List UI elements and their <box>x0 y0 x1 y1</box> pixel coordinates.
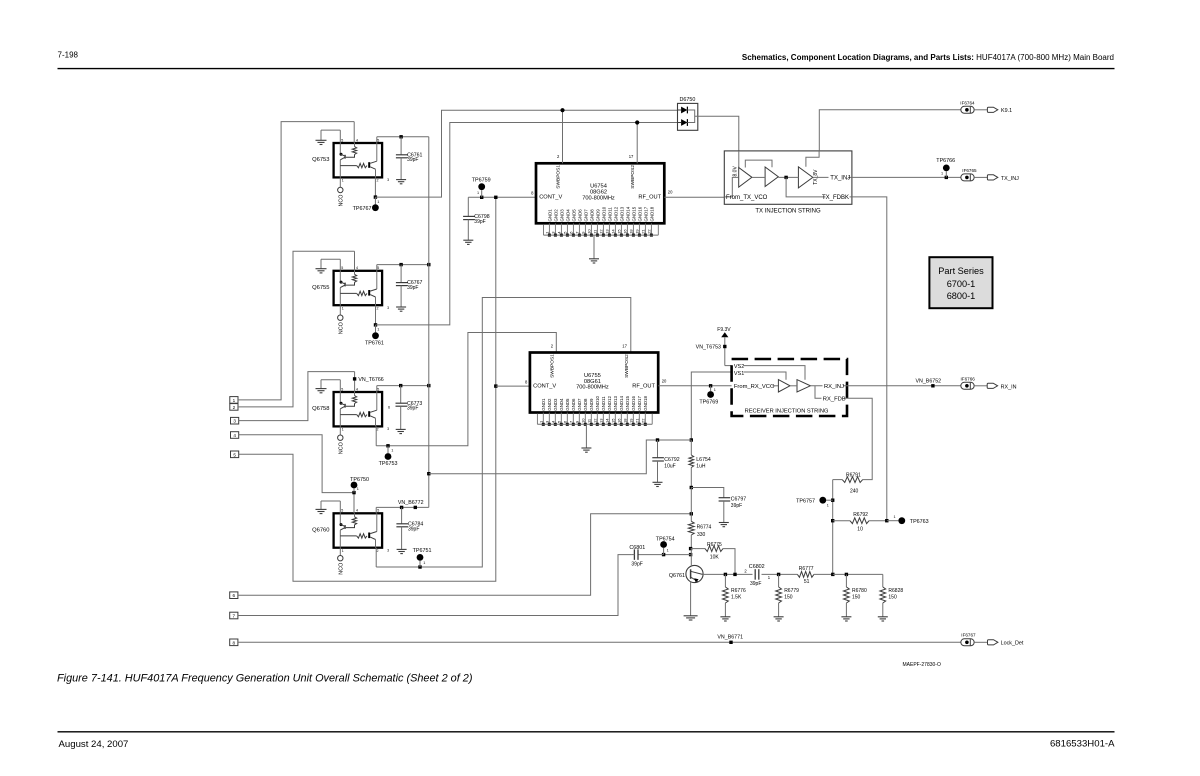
Q6760 internals: collector resistor from pin 4 <box>354 513 356 517</box>
svg-text:VS1: VS1 <box>734 371 744 377</box>
svg-text:2: 2 <box>377 549 379 553</box>
svg-text:39pF: 39pF <box>407 406 418 412</box>
net marker VN_B6772 <box>414 506 417 509</box>
svg-text:1: 1 <box>342 549 344 553</box>
svg-text:5: 5 <box>233 452 236 457</box>
svg-text:NCO: NCO <box>338 322 344 334</box>
svg-text:1: 1 <box>768 575 771 580</box>
connector 1 <box>230 397 238 404</box>
ground below C6773 <box>396 428 406 430</box>
junction C6801 tap <box>689 553 692 556</box>
svg-text:GND4: GND4 <box>565 209 570 222</box>
junction bus / pin5 net <box>427 263 430 266</box>
header rule <box>58 68 1115 70</box>
svg-text:16: 16 <box>616 418 621 423</box>
Q6758 pin 1 NCO circle <box>339 426 341 435</box>
svg-text:1: 1 <box>377 200 379 204</box>
Q6758 ground (top-left) <box>321 379 340 381</box>
svg-text:8: 8 <box>531 191 534 196</box>
wire: amp2 to amp3 with feedback tap <box>778 176 798 178</box>
svg-text:IF6764: IF6764 <box>960 100 975 105</box>
svg-text:4: 4 <box>356 509 358 513</box>
svg-text:150: 150 <box>784 595 793 601</box>
svg-text:39pF: 39pF <box>474 219 485 225</box>
Q6755 internals: collector resistor from pin 4 <box>354 271 356 275</box>
svg-text:VN_B6771: VN_B6771 <box>717 635 743 641</box>
svg-text:GND13: GND13 <box>619 206 624 221</box>
TX_8V supply to amp3 <box>806 151 819 167</box>
capacitor C6784 <box>401 507 403 523</box>
Q6753 ground (top-left) <box>321 129 340 131</box>
svg-text:RF_OUT: RF_OUT <box>638 194 661 200</box>
junction TP6759 <box>480 196 483 199</box>
wire: Q6755 pin 2 to D6750 lower diode <box>375 305 377 325</box>
ground below C6798 <box>463 239 473 241</box>
svg-text:6800-1: 6800-1 <box>947 291 976 301</box>
wire: C6801 to collector node <box>664 554 691 556</box>
Q6753 pin 1 NCO pin circle <box>339 177 341 187</box>
junction TP6766 <box>945 176 948 179</box>
wire: D6750 output to TX injection string 8.0V <box>695 116 739 151</box>
svg-text:1uH: 1uH <box>696 463 706 469</box>
svg-text:3: 3 <box>544 420 549 423</box>
wire: Q6758 pin 5 output to bus <box>376 386 378 392</box>
wire: Q6753 pin 5 output to bus <box>376 137 378 143</box>
svg-text:TX_8V: TX_8V <box>813 169 819 185</box>
svg-text:NCO: NCO <box>338 563 344 575</box>
wire: feedback tap down to TX_FDBK <box>786 177 852 197</box>
wire: VN_T6753 to VS2 <box>725 365 732 367</box>
amplifier 2 <box>765 167 778 187</box>
amplifier 3 <box>798 167 812 188</box>
diode D6750-2 <box>681 119 687 126</box>
svg-text:GND15: GND15 <box>625 396 630 411</box>
connector 2 <box>230 404 238 411</box>
junction TP6750 corner <box>352 491 355 494</box>
svg-text:6700-1: 6700-1 <box>947 279 976 289</box>
svg-text:21: 21 <box>640 229 645 234</box>
svg-text:2: 2 <box>377 306 379 310</box>
svg-text:GND14: GND14 <box>625 206 630 221</box>
connector 7 <box>230 612 238 619</box>
svg-text:6: 6 <box>568 231 573 234</box>
U6754 ground symbol <box>593 235 595 259</box>
svg-text:GND8: GND8 <box>589 209 594 222</box>
svg-text:1: 1 <box>667 549 669 553</box>
svg-text:GND8: GND8 <box>583 398 588 411</box>
svg-text:13: 13 <box>598 418 603 423</box>
resistor R6776 <box>724 574 726 587</box>
connector IF6766 <box>961 382 974 389</box>
net marker VN_T6753 <box>723 345 726 348</box>
svg-text:NCO: NCO <box>338 195 344 207</box>
svg-text:RF_OUT: RF_OUT <box>632 384 655 390</box>
transistor Q6761 <box>686 565 703 582</box>
wire: connector 8 Lock_Det net VN_B6771 <box>238 641 961 643</box>
svg-text:TX_INJ: TX_INJ <box>830 175 850 181</box>
Q6753 internals: input transistor <box>339 143 341 154</box>
svg-text:GND3: GND3 <box>559 209 564 222</box>
junction at Q6755 pin 2 / TP6761 <box>374 323 377 326</box>
junction TX_FDBK / R6792 / TP6763 <box>885 519 888 522</box>
svg-text:GND17: GND17 <box>637 396 642 411</box>
svg-text:17: 17 <box>622 343 627 348</box>
capacitor C6767 <box>400 265 402 283</box>
svg-text:GND11: GND11 <box>607 207 612 222</box>
svg-text:4: 4 <box>556 231 561 234</box>
Q6755 ground (top-left) <box>321 258 340 260</box>
svg-text:4: 4 <box>356 266 358 270</box>
svg-text:TP6759: TP6759 <box>472 178 491 184</box>
svg-text:GND18: GND18 <box>649 206 654 221</box>
svg-text:GND6: GND6 <box>571 398 576 411</box>
rx amplifier 1 <box>778 380 790 392</box>
svg-text:IF6765: IF6765 <box>962 168 977 173</box>
wire: connector 6 to bias node <box>238 514 691 595</box>
svg-text:20: 20 <box>662 379 667 384</box>
capacitor C6792 <box>657 440 659 458</box>
svg-text:5: 5 <box>377 387 379 391</box>
svg-text:TX_INJ: TX_INJ <box>1001 176 1019 182</box>
svg-text:VS2: VS2 <box>734 364 744 370</box>
svg-text:GND7: GND7 <box>583 209 588 222</box>
svg-text:R6777: R6777 <box>799 566 814 572</box>
svg-text:21: 21 <box>634 418 639 423</box>
svg-text:VN_B6772: VN_B6772 <box>398 500 424 506</box>
junction on D6750 lower net <box>635 120 639 124</box>
svg-text:39pF: 39pF <box>631 561 642 567</box>
off-page arrow Lock_Det <box>988 640 998 645</box>
wire: bias node to VS1 <box>691 372 731 440</box>
svg-text:R6779: R6779 <box>784 588 799 594</box>
svg-text:1: 1 <box>233 398 236 403</box>
svg-text:5: 5 <box>341 509 343 513</box>
diode D6750-1 <box>681 107 687 114</box>
connector 8 <box>230 639 238 646</box>
wire: CONT_V to U6754 pin 8 <box>468 196 536 198</box>
ground below C6784 <box>397 548 407 550</box>
wire: R6791 down to R6792 <box>832 480 834 575</box>
svg-text:Lock_Det: Lock_Det <box>1001 641 1024 647</box>
svg-text:GND2: GND2 <box>553 209 558 222</box>
wire: Q6753 pin 4 feed from top loop <box>353 122 355 143</box>
test point TP6751 <box>419 561 421 567</box>
svg-text:R6780: R6780 <box>852 588 867 594</box>
svg-text:1: 1 <box>714 388 716 392</box>
svg-text:5: 5 <box>341 387 343 391</box>
wire: Q6758 pin 4 feed <box>354 372 356 392</box>
svg-text:22: 22 <box>646 229 651 234</box>
junction C6792 <box>656 438 659 441</box>
capacitor C6797 <box>719 497 731 499</box>
svg-text:5: 5 <box>377 138 379 142</box>
svg-text:2: 2 <box>377 179 379 183</box>
rx amplifier 2 <box>797 380 810 392</box>
svg-text:C6802: C6802 <box>749 564 765 570</box>
svg-text:D6750: D6750 <box>680 97 696 103</box>
svg-text:Schematics, Component Location: Schematics, Component Location Diagrams,… <box>742 53 1114 62</box>
wire: amp3 output TX_INJ <box>813 176 852 178</box>
svg-text:IF6767: IF6767 <box>961 633 976 638</box>
svg-text:TP6769: TP6769 <box>699 400 718 406</box>
svg-text:F9.3V: F9.3V <box>717 327 731 333</box>
svg-text:SWBPOS1: SWBPOS1 <box>556 165 562 189</box>
svg-text:39pF: 39pF <box>408 526 419 532</box>
transistor array Q6755 module box <box>334 271 383 305</box>
svg-text:Q6753: Q6753 <box>312 157 329 163</box>
svg-text:2: 2 <box>744 569 747 574</box>
ground below C6797 <box>719 522 729 524</box>
connector 4 <box>231 432 239 439</box>
svg-text:2: 2 <box>557 154 560 159</box>
svg-text:K9.1: K9.1 <box>1001 108 1012 114</box>
diode pack D6750 <box>678 103 698 130</box>
footer rule <box>58 731 1115 733</box>
svg-text:4: 4 <box>356 138 358 142</box>
transistor array Q6753 module box <box>334 143 383 177</box>
Q6755 pin 1 NCO circle <box>339 305 341 315</box>
svg-text:39pF: 39pF <box>731 503 742 509</box>
junction L6754 bottom / C6797 <box>690 486 693 489</box>
svg-text:GND3: GND3 <box>553 398 558 411</box>
junction at C6767 top <box>399 263 402 266</box>
svg-text:GND12: GND12 <box>613 206 618 221</box>
svg-text:RX_FDB: RX_FDB <box>823 397 846 403</box>
Q6760 internals: input transistor <box>339 513 341 524</box>
svg-text:CONT_V: CONT_V <box>539 194 562 200</box>
junction: bus to bias feed <box>427 472 430 475</box>
wire: rx amp2 output RX_INJ <box>810 385 847 387</box>
wire: From_TX_VCO input <box>724 177 738 197</box>
capacitor C6798 <box>467 197 469 216</box>
Q6761 emitter ground <box>690 582 692 616</box>
wire: U6754 pin 2 from D6750 net <box>562 110 564 163</box>
D6750 internal output join <box>687 110 694 123</box>
svg-text:13: 13 <box>604 229 609 234</box>
svg-text:GND15: GND15 <box>631 206 636 221</box>
wire: U6754 pin 17 from D6750 net <box>636 123 638 164</box>
svg-text:10K: 10K <box>710 554 720 560</box>
svg-text:15: 15 <box>616 229 621 234</box>
svg-text:5: 5 <box>556 420 561 423</box>
junction CONT_V bus drop <box>494 196 497 199</box>
svg-text:6: 6 <box>388 406 390 410</box>
svg-text:GND9: GND9 <box>589 398 594 411</box>
junction R6774 top / connector 6 feed <box>690 512 693 515</box>
Q6755 internals: input transistor <box>339 271 341 282</box>
svg-text:1: 1 <box>538 420 543 423</box>
svg-text:7-198: 7-198 <box>58 51 79 60</box>
wire: Q6758 pin 2 to U6755 SWBPOS1 <box>375 426 377 445</box>
test point TP6759 <box>481 190 483 197</box>
capacitor C6801 horizontal <box>638 554 664 556</box>
svg-text:11: 11 <box>586 418 591 423</box>
wire: Q6760 pin 4 feed <box>353 493 355 514</box>
svg-text:RX_INJ: RX_INJ <box>824 384 844 390</box>
Q6760 pin 1 NCO circle <box>339 548 341 556</box>
oscillator IC U6755 box <box>530 353 658 413</box>
svg-text:1: 1 <box>342 306 344 310</box>
svg-text:1: 1 <box>377 328 379 332</box>
svg-text:19: 19 <box>628 418 633 423</box>
Q6758 internals: base resistor and output transistor <box>340 414 356 416</box>
svg-text:9: 9 <box>580 231 585 234</box>
svg-text:8: 8 <box>525 380 528 385</box>
svg-text:6: 6 <box>233 593 236 598</box>
svg-text:8.0V: 8.0V <box>733 166 739 177</box>
svg-text:TP6750: TP6750 <box>350 477 369 483</box>
svg-text:C6797: C6797 <box>731 497 746 503</box>
wire: connector 4 to Q6760 pin 4 <box>239 435 354 493</box>
svg-text:GND16: GND16 <box>637 206 642 221</box>
junction R6775 drop <box>733 573 736 576</box>
svg-text:3: 3 <box>387 306 389 310</box>
svg-text:VN_B6752: VN_B6752 <box>916 378 942 384</box>
svg-text:From_TX_VCO: From_TX_VCO <box>726 195 768 201</box>
connector 5 <box>231 451 239 458</box>
resistor R6775 <box>691 548 705 550</box>
svg-text:2: 2 <box>233 405 236 410</box>
test point TP6761 <box>375 325 377 332</box>
svg-text:GND14: GND14 <box>619 396 624 411</box>
wire: RX_INJ to connector <box>847 385 961 387</box>
svg-text:TP6766: TP6766 <box>936 158 955 164</box>
junction at C6784 top <box>400 506 403 509</box>
junction at C6773 top <box>399 384 402 387</box>
svg-text:1: 1 <box>477 191 479 195</box>
svg-text:VN_T6753: VN_T6753 <box>696 345 721 351</box>
connector 6 <box>230 592 238 599</box>
junction R6775 tap <box>689 547 692 550</box>
svg-text:Q6755: Q6755 <box>312 285 329 291</box>
svg-text:GND2: GND2 <box>547 398 552 411</box>
svg-text:GND10: GND10 <box>601 206 606 221</box>
svg-text:R6776: R6776 <box>731 588 746 594</box>
ground below C6767 <box>396 306 406 308</box>
wire: Q6760 pin 2 to U6755 SWBPOS2 <box>375 548 377 567</box>
svg-text:2: 2 <box>551 343 554 348</box>
supply bracket over amplifiers <box>745 160 772 167</box>
off-page arrow TX_INJ <box>987 175 997 180</box>
svg-text:2: 2 <box>377 428 379 432</box>
TX injection string block <box>724 151 852 204</box>
svg-text:TP6763: TP6763 <box>910 519 929 525</box>
svg-text:VN_T6766: VN_T6766 <box>358 377 383 383</box>
wire: TX_INJ output to connector IF6765 <box>852 176 961 178</box>
junction on D6750 upper net <box>560 108 564 112</box>
svg-text:GND13: GND13 <box>613 396 618 411</box>
junction TP6751 <box>418 565 421 568</box>
svg-text:1: 1 <box>342 428 344 432</box>
off-page arrow RX_IN <box>987 383 997 388</box>
svg-text:17: 17 <box>629 154 634 159</box>
svg-text:From_RX_VCO: From_RX_VCO <box>734 384 775 390</box>
junction R6780 <box>845 573 848 576</box>
svg-text:10uF: 10uF <box>664 463 675 469</box>
net label VN_T6766 <box>353 377 356 380</box>
svg-text:51: 51 <box>804 579 810 585</box>
inductor L6754 <box>690 440 692 455</box>
svg-text:TP6757: TP6757 <box>796 498 815 504</box>
svg-text:GND7: GND7 <box>577 398 582 411</box>
svg-text:1: 1 <box>894 515 896 519</box>
transistor array Q6758 module box <box>334 392 383 426</box>
test point TP6766 <box>945 171 947 177</box>
svg-text:700-800MHz: 700-800MHz <box>576 385 609 391</box>
svg-text:12: 12 <box>592 418 597 423</box>
svg-text:Q6758: Q6758 <box>312 406 329 412</box>
oscillator IC U6754 box <box>536 163 664 223</box>
transistor array Q6760 module box <box>334 513 383 547</box>
svg-text:SWBPOS1: SWBPOS1 <box>549 354 555 378</box>
svg-text:3: 3 <box>233 419 236 424</box>
wire: Q6761 collector output <box>703 573 798 575</box>
svg-text:19: 19 <box>634 229 639 234</box>
junction R6779 / C6802 right <box>777 573 780 576</box>
svg-text:TP6754: TP6754 <box>656 537 675 543</box>
resistor R6792 <box>833 520 850 522</box>
test point TP6753 <box>387 446 389 453</box>
resistor R6791 <box>842 477 863 483</box>
wire: TX_FDBK down to R6792 node <box>852 197 887 521</box>
junction at Q6753 pin 2 / TP6767 <box>374 195 377 198</box>
svg-text:12: 12 <box>598 229 603 234</box>
test point TP6754 <box>663 548 665 555</box>
svg-text:1: 1 <box>391 448 393 452</box>
svg-text:9: 9 <box>574 420 579 423</box>
svg-text:GND12: GND12 <box>607 396 612 411</box>
Q6755 internals: base resistor and output transistor <box>340 292 356 294</box>
Q6760 ground (top-left) <box>321 500 340 502</box>
svg-text:39pF: 39pF <box>407 285 418 291</box>
svg-text:Q6760: Q6760 <box>312 527 329 533</box>
amplifier 1 <box>739 168 752 188</box>
test point TP6750 <box>353 488 355 492</box>
svg-text:RX_IN: RX_IN <box>1001 384 1017 390</box>
svg-text:GND5: GND5 <box>565 398 570 411</box>
wire: connector 1 to Q6753 pin 4 loop <box>238 122 354 400</box>
svg-text:330: 330 <box>697 532 706 538</box>
svg-text:SWBPOS2: SWBPOS2 <box>630 165 636 189</box>
test point TP6763 <box>887 520 899 522</box>
wire: Q6753 pin 2 to D6750 upper diode <box>374 177 376 197</box>
capacitor C6761 <box>400 137 402 155</box>
svg-text:IF6766: IF6766 <box>961 376 976 381</box>
wire: Q6760 pin 5 output to bus <box>375 507 377 513</box>
test point TP6767 <box>374 197 376 204</box>
svg-text:GND18: GND18 <box>643 396 648 411</box>
svg-text:1: 1 <box>941 171 943 175</box>
junction TP6769 <box>709 384 712 387</box>
svg-text:GND17: GND17 <box>643 206 648 221</box>
svg-text:4: 4 <box>233 433 236 438</box>
svg-text:GND1: GND1 <box>547 209 552 222</box>
svg-text:1: 1 <box>357 487 359 491</box>
svg-text:TX INJECTION STRING: TX INJECTION STRING <box>755 209 821 215</box>
svg-text:C6792: C6792 <box>664 457 679 463</box>
svg-text:August 24, 2007: August 24, 2007 <box>59 739 129 750</box>
wire to C6797 <box>691 488 724 498</box>
svg-text:GND6: GND6 <box>577 209 582 222</box>
resistor R6780 <box>845 574 847 587</box>
8.0V label rotated <box>738 151 740 168</box>
wire: TX_8V net to connector IF6764 <box>819 110 961 151</box>
svg-text:8: 8 <box>233 640 236 645</box>
connector IF6767 <box>961 639 974 646</box>
connector IF6765 <box>961 174 974 181</box>
svg-text:Q6761: Q6761 <box>669 573 685 579</box>
svg-text:1: 1 <box>423 561 425 565</box>
